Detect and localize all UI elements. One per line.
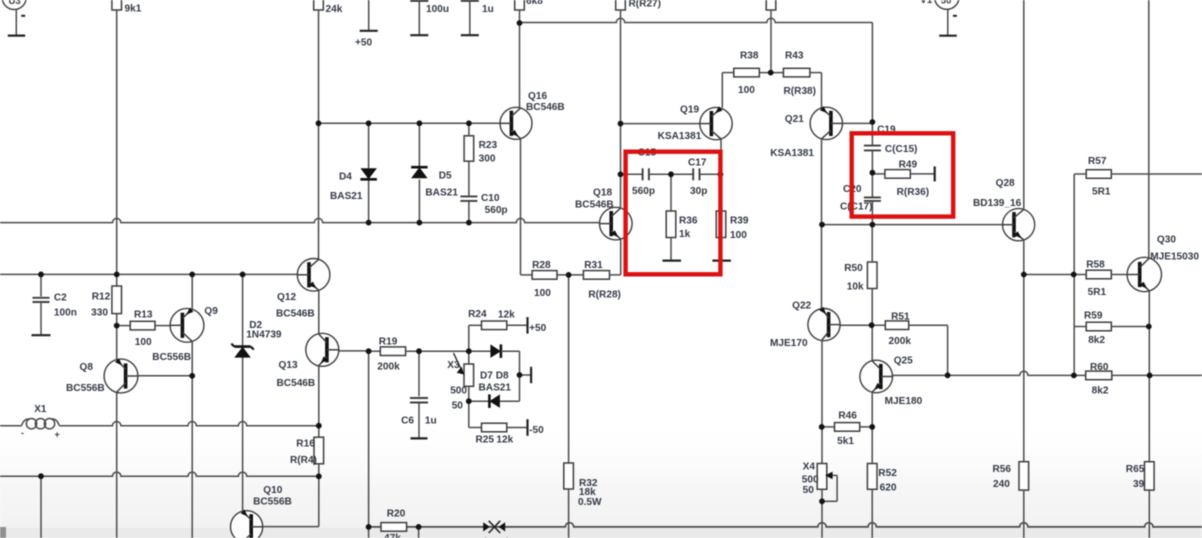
svg-text:Q16: Q16	[528, 91, 547, 102]
svg-text:BC556B: BC556B	[253, 496, 292, 507]
svg-text:300: 300	[479, 154, 496, 165]
svg-text:12k: 12k	[496, 435, 513, 446]
svg-text:560p: 560p	[632, 186, 655, 197]
svg-text:R(R38): R(R38)	[784, 86, 817, 97]
svg-text:620: 620	[880, 482, 897, 493]
svg-text:R(R4): R(R4)	[290, 455, 317, 466]
svg-text:-: -	[21, 428, 24, 438]
svg-text:200k: 200k	[889, 336, 912, 347]
svg-text:R(R27): R(R27)	[629, 0, 662, 10]
svg-text:D4: D4	[339, 172, 352, 183]
svg-text:BC546B: BC546B	[276, 308, 315, 319]
svg-text:+: +	[55, 430, 60, 440]
svg-text:Q19: Q19	[680, 105, 699, 116]
svg-text:BAS21: BAS21	[330, 191, 363, 202]
svg-text:R16: R16	[296, 438, 315, 449]
svg-text:R12: R12	[92, 291, 111, 302]
svg-text:12k: 12k	[498, 310, 515, 321]
svg-text:R50: R50	[844, 263, 863, 274]
svg-text:R43: R43	[785, 51, 804, 62]
svg-text:C10: C10	[481, 193, 500, 204]
svg-text:MJE180: MJE180	[885, 396, 923, 407]
svg-text:Q9: Q9	[204, 306, 218, 317]
svg-text:Q13: Q13	[279, 360, 298, 371]
svg-text:Q30: Q30	[1157, 234, 1176, 245]
svg-text:Q10: Q10	[263, 485, 282, 496]
svg-text:47k: 47k	[384, 533, 401, 538]
svg-text:U3: U3	[9, 0, 21, 7]
svg-text:100n: 100n	[54, 308, 77, 319]
svg-text:8k2: 8k2	[1092, 386, 1109, 397]
svg-text:100u: 100u	[426, 4, 449, 15]
svg-text:Q22: Q22	[792, 300, 811, 311]
svg-text:R28: R28	[532, 260, 551, 271]
svg-text:R(R36): R(R36)	[897, 187, 930, 198]
svg-text:BAS21: BAS21	[479, 383, 512, 394]
svg-text:R59: R59	[1084, 310, 1103, 321]
svg-text:C6: C6	[401, 415, 414, 426]
svg-text:1N4739: 1N4739	[246, 330, 282, 341]
svg-text:BC556B: BC556B	[66, 383, 105, 394]
svg-text:R51: R51	[891, 311, 910, 322]
svg-text:5R1: 5R1	[1092, 187, 1111, 198]
svg-text:D5: D5	[439, 170, 452, 181]
svg-text:D7 D8: D7 D8	[480, 371, 509, 382]
svg-text:50: 50	[941, 0, 952, 7]
svg-text:Q8: Q8	[80, 362, 94, 373]
svg-text:Q28: Q28	[996, 178, 1015, 189]
svg-text:R23: R23	[479, 140, 498, 151]
svg-text:R56: R56	[993, 464, 1012, 475]
svg-text:R24: R24	[468, 309, 487, 320]
svg-text:330: 330	[91, 308, 108, 319]
svg-text:500: 500	[802, 475, 819, 486]
svg-text:MJE170: MJE170	[770, 338, 808, 349]
svg-text:MJE15030: MJE15030	[1150, 252, 1199, 263]
svg-text:Q18: Q18	[593, 188, 612, 199]
svg-text:R36: R36	[679, 216, 698, 227]
svg-text:C(C15): C(C15)	[885, 144, 918, 155]
svg-text:C2: C2	[54, 293, 67, 304]
svg-text:10k: 10k	[847, 281, 864, 292]
svg-text:R65: R65	[1126, 464, 1145, 475]
svg-text:30p: 30p	[690, 186, 707, 197]
svg-text:500: 500	[450, 386, 467, 397]
svg-text:Q25: Q25	[894, 356, 913, 367]
svg-text:Q12: Q12	[277, 292, 296, 303]
svg-text:R38: R38	[740, 51, 759, 62]
svg-text:R39: R39	[730, 216, 749, 227]
svg-text:560p: 560p	[485, 205, 508, 216]
svg-text:200k: 200k	[377, 362, 400, 373]
svg-text:50: 50	[452, 400, 464, 411]
svg-text:-50: -50	[529, 425, 544, 436]
svg-text:5k1: 5k1	[837, 436, 854, 447]
svg-text:50: 50	[803, 485, 815, 496]
svg-text:X4: X4	[803, 462, 816, 473]
svg-text:9k1: 9k1	[125, 4, 142, 15]
svg-text:KSA1381: KSA1381	[770, 148, 814, 159]
svg-text:BC546B: BC546B	[575, 200, 614, 211]
svg-text:R(R28): R(R28)	[588, 290, 621, 301]
svg-text:BC546B: BC546B	[277, 378, 316, 389]
svg-text:R58: R58	[1086, 259, 1105, 270]
svg-text:BC556B: BC556B	[152, 352, 191, 363]
svg-text:BC546B: BC546B	[526, 102, 565, 113]
svg-text:24k: 24k	[326, 4, 343, 15]
svg-text:R46: R46	[838, 411, 857, 422]
svg-text:100: 100	[738, 85, 755, 96]
svg-text:+50: +50	[529, 323, 547, 334]
svg-text:C17: C17	[688, 158, 707, 169]
svg-text:X1: X1	[34, 404, 47, 415]
svg-text:BAS21: BAS21	[425, 187, 458, 198]
svg-text:C(C17): C(C17)	[840, 202, 873, 213]
svg-text:Q21: Q21	[785, 114, 804, 125]
svg-text:100: 100	[534, 288, 551, 299]
svg-text:R52: R52	[878, 468, 897, 479]
svg-text:8k2: 8k2	[1088, 335, 1105, 346]
svg-text:R20: R20	[387, 508, 406, 519]
svg-text:5R1: 5R1	[1088, 287, 1107, 298]
svg-text:R31: R31	[584, 260, 603, 271]
svg-text:V1: V1	[920, 0, 933, 6]
svg-text:BD139_16: BD139_16	[973, 198, 1022, 209]
svg-text:6k8: 6k8	[526, 0, 543, 7]
svg-text:X3: X3	[447, 360, 460, 371]
svg-text:1k: 1k	[679, 229, 691, 240]
svg-text:100: 100	[135, 337, 152, 348]
svg-text:R19: R19	[379, 336, 398, 347]
svg-text:+50: +50	[355, 37, 373, 48]
svg-text:100: 100	[730, 230, 747, 241]
svg-text:R60: R60	[1090, 362, 1109, 373]
svg-text:R49: R49	[899, 160, 918, 171]
svg-text:1u: 1u	[482, 4, 494, 15]
svg-text:0.5W: 0.5W	[578, 497, 602, 508]
svg-text:1u: 1u	[425, 415, 437, 426]
svg-text:R25: R25	[476, 435, 495, 446]
svg-text:39: 39	[1133, 479, 1145, 490]
svg-text:R57: R57	[1088, 156, 1107, 167]
svg-text:R13: R13	[134, 309, 153, 320]
svg-text:KSA1381: KSA1381	[658, 131, 702, 142]
svg-text:240: 240	[993, 479, 1010, 490]
